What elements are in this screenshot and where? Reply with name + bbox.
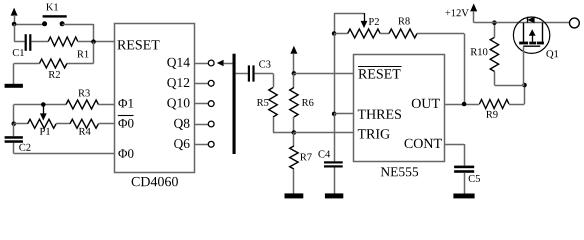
ground (C5) (453, 194, 474, 199)
pin label RESET (CD4060) (117, 40, 159, 49)
junction OUT node (462, 102, 467, 107)
capacitor C1 (25, 34, 32, 51)
wire: THRES node to 555 THRES pin (334, 113, 354, 115)
pin label PHI1 (118, 99, 133, 108)
Q1 source/drain stubs (524, 23, 543, 42)
junction +12V rail / R10 (492, 20, 497, 25)
wire: node to P1 (14, 123, 28, 125)
label P1 (40, 128, 50, 135)
label CD4060 (132, 177, 178, 186)
wire: R7 to ground (293, 169, 295, 194)
Q1 body diode (527, 17, 534, 24)
wire: P2 node down column (334, 34, 336, 114)
wire: left node down to P1 row (13, 105, 15, 124)
pin Q10 of CD4060 with open circle (167, 98, 214, 109)
wire: C1 to R1 (31, 41, 48, 43)
wire: R5 bottom to TRIG row (273, 117, 294, 133)
pin label TRIG (358, 129, 390, 138)
junction R1/R2/RESET node (91, 39, 96, 44)
Q1 gate lead (523, 47, 525, 85)
pin Q14 of CD4060 with open circle (167, 58, 214, 69)
label R5 (257, 99, 269, 106)
junction P1 wiper node (41, 102, 46, 107)
wire: left node to R3 (14, 104, 66, 106)
label C3 (259, 61, 270, 68)
ground (R2) (5, 84, 23, 88)
wire: supply to K1 left contact (14, 24, 44, 26)
Q1 substrate arrow (529, 29, 536, 41)
IC NE555 box (354, 55, 445, 162)
capacitor C4 (324, 161, 343, 167)
wire: R6 bottom to junction (293, 117, 295, 133)
pin Q6 of CD4060 with open circle (174, 139, 214, 150)
pin label PHI0bar (118, 116, 134, 128)
wire: R3 to PHI1 pin (98, 104, 114, 106)
resistor R1 (48, 37, 78, 46)
wire: R8 to OUT column (417, 34, 465, 105)
label Q1 (546, 50, 558, 59)
resistor R6 (290, 88, 298, 118)
wire: OUT pin to node (444, 104, 479, 106)
potentiometer P2 wiper (334, 13, 367, 34)
label +12V (445, 9, 468, 16)
wire: C2 to PHI0 pin (14, 143, 115, 154)
potentiometer P1 wiper arrow (40, 105, 47, 121)
pin Q12 of CD4060 with open circle (167, 78, 214, 89)
wire: R6 node to 555 RESET pin (294, 73, 354, 75)
resistor R2 (39, 59, 67, 68)
wire: TRIG node to 555 TRIG pin (294, 132, 354, 134)
Q1 channel bars (519, 42, 544, 45)
wire: R2 left to ground (14, 64, 40, 85)
wire: R9 to gate column (509, 85, 525, 105)
potentiometer P1 (28, 119, 56, 128)
label R3 (78, 89, 90, 96)
wire: CONT pin to C5 (444, 144, 464, 166)
junction P2 node (332, 31, 337, 36)
wire: R6 node down (293, 73, 295, 87)
junction left node/P1/C2 (12, 122, 17, 127)
label R8 (398, 17, 410, 24)
Q1 gate bar (523, 46, 540, 47)
label R4 (79, 128, 91, 135)
wire: node down to C2 (13, 124, 15, 136)
pin label PHI0 (118, 149, 133, 158)
wire: C5 to ground (464, 173, 466, 194)
label K1 (46, 4, 58, 11)
wire: K1 right to corner (62, 24, 93, 26)
capacitor C3 (248, 65, 255, 81)
jumper arrow into Q14 (217, 60, 233, 66)
wire: corner down to R1 node (93, 24, 95, 42)
wire: TRIG node down to R7 (293, 133, 295, 147)
capacitor C2 (5, 136, 23, 143)
label C4 (318, 150, 330, 157)
power arrow +12V (470, 3, 477, 22)
ground (R7) (285, 193, 304, 198)
wire: C4 to ground (334, 168, 336, 194)
switch K1 bar (43, 15, 67, 17)
resistor R4 (70, 119, 99, 128)
pin label THRES (358, 110, 401, 119)
MOSFET Q1 body circle (513, 17, 549, 53)
wire: +12V arrow to rail (474, 22, 495, 24)
junction THRES node (332, 112, 337, 117)
resistor R10 (490, 37, 498, 71)
wire: R4 to PHI0bar pin (98, 123, 114, 125)
resistor R3 (66, 100, 98, 109)
wire: gate node to R10 (494, 71, 524, 85)
wire: P2 to R8 (380, 33, 389, 35)
wire: +12V rail through Q1 (494, 22, 569, 24)
IC CD4060 box (115, 24, 195, 173)
resistor R8 (389, 29, 417, 38)
junction supply/K1/C1 (12, 22, 17, 27)
wire: P1 to R4 (56, 123, 70, 125)
wire: bar to C3 (236, 73, 248, 75)
label C1 (13, 49, 24, 56)
wire: C3 to R5 top (255, 73, 274, 87)
capacitor C5 (454, 166, 474, 173)
output terminal circle (570, 18, 580, 28)
label C5 (469, 175, 480, 182)
ground (C4) (325, 193, 343, 198)
switch K1 contacts (42, 21, 65, 26)
selection bus bar (233, 54, 236, 154)
resistor R5 (269, 88, 277, 118)
power arrow +V (R6) (290, 46, 297, 74)
wire: R1 to RESET pin of CD4060 (78, 41, 114, 43)
label P2 (369, 18, 379, 25)
junction R5/R6/R7 TRIG node (292, 130, 297, 135)
resistor R7 (290, 146, 298, 169)
wire: node down to R2 (67, 42, 94, 64)
junction R6 top / 555 RESET net (292, 71, 297, 76)
wire: node to P2 (334, 33, 348, 35)
pin label OUT (412, 99, 440, 108)
label R10 (471, 48, 488, 55)
label NE555 (381, 167, 418, 176)
wire: R10 top to +12V rail (494, 23, 496, 38)
label R7 (300, 154, 312, 161)
wire: column down to C4 (334, 114, 336, 161)
pin Q8 of CD4060 with open circle (174, 119, 214, 130)
label R2 (49, 71, 60, 78)
pin label RESET (NE555) with overline (358, 67, 402, 79)
label C2 (19, 144, 30, 151)
wire: supply down to C1 (14, 24, 25, 42)
potentiometer P2 (348, 29, 381, 38)
junction gate/R10 node (522, 83, 527, 88)
label R6 (302, 99, 314, 106)
resistor R9 (479, 100, 509, 109)
label R1 (77, 51, 88, 58)
pin label CONT (405, 139, 442, 148)
power arrow +V (top left) (11, 8, 18, 24)
label R9 (486, 111, 498, 118)
